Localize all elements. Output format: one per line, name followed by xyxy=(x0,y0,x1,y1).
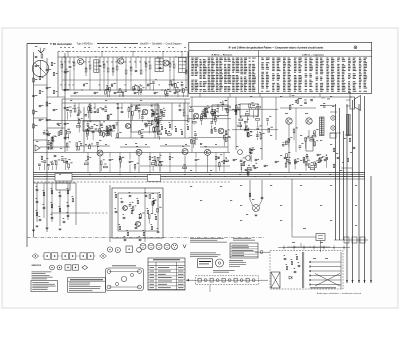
svg-text:SERVICE: SERVICE xyxy=(32,265,42,267)
svg-text:Änderungen vorbehalten — modif: Änderungen vorbehalten — modification re… xyxy=(317,292,361,295)
svg-text:+257: +257 xyxy=(321,97,325,99)
svg-text:T 80 Automatic: T 80 Automatic xyxy=(50,42,72,46)
svg-text:Ideal/S4 — Schaltbild — Circui: Ideal/S4 — Schaltbild — Circuit Diagram xyxy=(140,43,181,46)
svg-text:R-Werte — Resistors: R-Werte — Resistors xyxy=(212,53,233,56)
svg-text:R- und C-Werte der gedruckten: R- und C-Werte der gedruckten Platten — … xyxy=(229,46,324,49)
svg-text:C-Werte — Capacitors: C-Werte — Capacitors xyxy=(302,53,325,56)
svg-text:Type 1490/52xx: Type 1490/52xx xyxy=(77,44,94,46)
